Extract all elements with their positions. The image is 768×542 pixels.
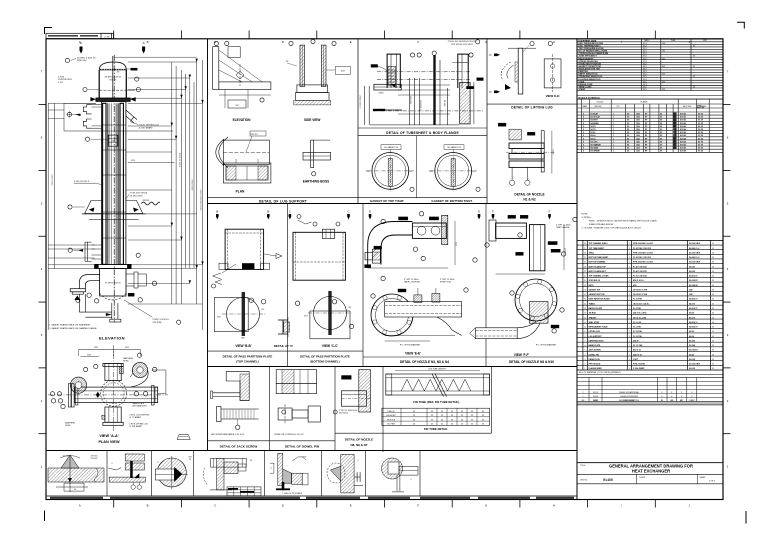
top strip pseudo text [48, 35, 78, 37]
bottom channel balloons top [313, 222, 317, 226]
svg-text:1: 1 [613, 141, 614, 143]
row3 caption bars [208, 440, 336, 442]
svg-text:XXX XXX: XXX XXX [91, 456, 99, 458]
svg-text:ELEVATION: ELEVATION [99, 336, 125, 341]
lifting lug plate [518, 48, 523, 94]
svg-text:D: D [489, 53, 491, 57]
svg-text:1: 1 [613, 126, 614, 128]
view F-F vertical pipe hatched [530, 302, 549, 324]
nozzle schedule dark column bar [673, 113, 677, 150]
bottom channel top notch [322, 229, 334, 238]
svg-text:N1 INLET: N1 INLET [591, 113, 599, 115]
svg-text:SA 36: SA 36 [689, 335, 694, 338]
jack screw stud [221, 408, 259, 410]
svg-text:XX/XX: XX/XX [593, 396, 599, 398]
nozzle N8 caption [335, 432, 383, 434]
tubesheet right U channel [458, 54, 468, 88]
svg-text:XX: XX [712, 294, 714, 296]
nozzle right dim vertical [551, 131, 553, 174]
svg-text:N1 & N2: N1 & N2 [523, 197, 535, 201]
svg-text:SA 105: SA 105 [689, 358, 695, 361]
svg-text:1: 1 [613, 120, 614, 122]
plan up arm top cap [103, 363, 123, 366]
svg-text:EARTHING BOSS: EARTHING BOSS [589, 339, 605, 342]
bottom shell flange band [95, 264, 132, 268]
svg-text:NECK THK: NECK THK [683, 106, 692, 108]
svg-text:XX XX: XX XX [698, 138, 704, 140]
svg-text:RF: RF [645, 138, 647, 140]
svg-text:1: 1 [613, 135, 614, 137]
svg-text:PL 10 THK: PL 10 THK [633, 336, 643, 338]
svg-text:PAINTING: PAINTING [579, 70, 589, 73]
svg-text:5 NOS. LUG SUPPORT: 5 NOS. LUG SUPPORT [129, 415, 150, 417]
divider left region / middle details [207, 39, 209, 451]
svg-text:2 NOS. XXL NOZZLE FOR XXX: 2 NOS. XXL NOZZLE FOR XXX [448, 41, 477, 43]
svg-text:A: A [80, 41, 82, 45]
svg-text:XXX XX: XXX XX [250, 134, 258, 136]
top channel feet [219, 263, 228, 269]
view D-D plate [544, 59, 561, 88]
scale flag symbol [177, 435, 190, 440]
plan arm right flange bars [152, 386, 155, 406]
plan top dim line [79, 349, 141, 351]
svg-text:1: 1 [629, 271, 630, 273]
svg-text:PL 40 X OD XXX: PL 40 X OD XXX [633, 270, 648, 273]
caption bar pass partition plates [208, 350, 364, 352]
svg-text:1: 1 [629, 359, 630, 361]
svg-text:2. OUTLINE : FLANGES 1 BOLT: 2. OUTLINE : FLANGES 1 BOLT OF ONE NOZZL… [582, 227, 642, 230]
tube bundle dark side bars [103, 103, 106, 264]
svg-text:PL 10 THK: PL 10 THK [633, 299, 643, 301]
svg-text:XXXX XXXXXXX XXXX: XXXX XXXXXXX XXXX [201, 189, 203, 211]
svg-text:EQUIPMENT DATA: EQUIPMENT DATA [579, 39, 597, 42]
svg-text:SA 516 70: SA 516 70 [689, 275, 697, 278]
svg-text:14: 14 [584, 308, 586, 310]
svg-text:150#: 150# [636, 120, 640, 122]
svg-text:SHELL: SHELL [589, 252, 596, 254]
svg-text:XX: XX [712, 299, 714, 301]
svg-text:XX XXX XXXX: XX XXX XXXX [130, 195, 144, 197]
svg-text:24: 24 [584, 262, 586, 264]
svg-text:TUBE OD: TUBE OD [387, 411, 395, 413]
svg-text:1: 1 [629, 276, 630, 278]
earthing boss bracket [311, 140, 314, 168]
svg-text:(BOTTOM CHANNEL): (BOTTOM CHANNEL) [310, 360, 339, 364]
svg-text:DIA 10 X L=XXX: DIA 10 X L=XXX [633, 312, 647, 315]
svg-text:DETAIL OF LUG SUPPORT: DETAIL OF LUG SUPPORT [259, 199, 308, 203]
svg-text:D: D [282, 504, 284, 508]
svg-text:RF: RF [645, 123, 647, 125]
svg-text:SA 106 GR.B: SA 106 GR.B [689, 261, 701, 264]
svg-text:C: C [289, 210, 291, 214]
nozzle centerline [506, 151, 555, 153]
svg-text:REF=TH: REF=TH [697, 108, 705, 110]
bottom nozzle [111, 303, 113, 319]
row3 box dividers [269, 367, 271, 451]
svg-text:150#: 150# [636, 129, 640, 131]
svg-text:2" NPT CL 3000: 2" NPT CL 3000 [440, 279, 455, 281]
svg-text:SHEET :: SHEET : [700, 477, 707, 479]
svg-text:ISSUED FOR REVIEW: ISSUED FOR REVIEW [620, 396, 638, 398]
title block [577, 463, 723, 500]
svg-text:150#: 150# [636, 113, 640, 115]
svg-text:JACK SCREW REMOVABLE @ XX & XX: JACK SCREW REMOVABLE @ XX & XX [211, 433, 245, 436]
view F-F black tag [551, 325, 559, 328]
divider middle details / right column [576, 39, 578, 500]
N1 black tag [498, 123, 506, 126]
lug support gusset lines [219, 50, 262, 82]
svg-text:NOZZLE: NOZZLE [597, 102, 605, 104]
svg-text:1: 1 [613, 144, 614, 146]
top channel partition bar [242, 263, 254, 269]
svg-text:XX XX: XX XX [698, 113, 704, 115]
svg-text:XX XX: XX XX [698, 132, 704, 134]
lifting lug dashed arc [501, 62, 511, 80]
lug base lines [82, 213, 146, 215]
svg-text:XX XX: XX XX [698, 123, 704, 125]
svg-text:150#: 150# [636, 123, 640, 125]
svg-text:XXXX XXXX: XXXX XXXX [192, 179, 194, 191]
svg-text:TEMA CLASS: TEMA CLASS [579, 85, 593, 88]
svg-text:OD GASKET XX: OD GASKET XX [384, 146, 399, 149]
view E-E top nozzle stubs [414, 295, 422, 303]
svg-text:XXXX XX XXXX: XXXX XX XXXX [180, 152, 182, 167]
left dim verticals [47, 103, 49, 330]
tubesheet left flange bars [374, 84, 401, 90]
svg-text:SA 193 B7: SA 193 B7 [689, 279, 698, 282]
svg-text:1: 1 [629, 266, 630, 268]
plan vertical arm down [105, 407, 121, 422]
svg-text:XX XX: XX XX [698, 126, 704, 128]
tubesheet box borders [357, 39, 359, 204]
svg-text:NO. FINS: NO. FINS [387, 423, 395, 425]
svg-text:2 NOS. LIFTING LUG: 2 NOS. LIFTING LUG [129, 424, 148, 426]
svg-text:VIEW 'B-B': VIEW 'B-B' [235, 344, 251, 348]
view E-E dim lines [385, 335, 455, 337]
lug support elevation vertical plate [213, 47, 219, 90]
svg-text:RF: RF [645, 135, 647, 137]
side view balloons [289, 41, 293, 45]
svg-text:1: 1 [629, 285, 630, 287]
svg-text:M2 HAND: M2 HAND [591, 147, 599, 150]
svg-text:INSULATION THK. MM: INSULATION THK. MM [579, 68, 601, 71]
svg-text:H: H [553, 40, 555, 44]
svg-text:N6 TG: N6 TG [591, 129, 597, 131]
svg-text:X XXXX XXXX: X XXXX XXXX [360, 95, 362, 109]
balloon top-left [65, 58, 69, 62]
svg-text:XXX PIPE: XXX PIPE [152, 322, 162, 324]
svg-text:SA 105: SA 105 [689, 265, 695, 268]
plan left hatched flange circle [70, 377, 86, 393]
svg-text:DETAIL OF DOWEL PIN: DETAIL OF DOWEL PIN [285, 444, 320, 448]
nozzle schedule table [577, 99, 723, 152]
svg-text:XXX: XXX [341, 71, 346, 73]
svg-text:NAME PLATE: NAME PLATE [589, 344, 601, 347]
svg-text:XX: XX [712, 340, 714, 342]
nozzle N3 flange barrel [412, 223, 446, 238]
svg-text:ELEVATION: ELEVATION [233, 118, 251, 122]
left manway upper flange [83, 105, 91, 114]
svg-text:DETAIL OF PASS PARTITION PLATE: DETAIL OF PASS PARTITION PLATE [300, 355, 350, 359]
svg-text:1: 1 [613, 117, 614, 119]
svg-text:PIPE 2 SCH80: PIPE 2 SCH80 [633, 364, 645, 366]
nozzle N6 horizontal flange assembly [496, 223, 527, 238]
bottom run to center [79, 311, 112, 313]
svg-text:XX XX: XX XX [698, 120, 704, 122]
svg-text:XXX XX: XXX XX [109, 80, 117, 82]
plan arm left flange bars [68, 384, 71, 407]
svg-text:DRAIN PLUG: DRAIN PLUG [589, 358, 601, 361]
nozzle N8 vertical hatched bar [359, 370, 371, 412]
footer strip [46, 495, 577, 497]
svg-text:1: 1 [629, 313, 630, 315]
svg-text:NOTE :: NOTE : [582, 214, 589, 216]
svg-text:BOSS: BOSS [65, 425, 71, 427]
svg-text:1: 1 [613, 113, 614, 115]
svg-text:SPACER: SPACER [589, 316, 597, 319]
svg-text:XX: XX [712, 331, 714, 333]
svg-text:SA 516 70: SA 516 70 [689, 326, 697, 329]
view E-E flange circle [371, 294, 413, 336]
svg-text:SCH 40: SCH 40 [680, 128, 686, 131]
svg-text:IMPINGEMENT PLATE: IMPINGEMENT PLATE [589, 326, 609, 329]
balloon spider [85, 137, 89, 141]
svg-text:1: 1 [629, 354, 630, 356]
weld box 4 flange corner [211, 458, 247, 467]
svg-text:XX: XX [712, 364, 714, 366]
svg-text:1: 1 [629, 243, 630, 245]
svg-text:RF: RF [645, 120, 647, 122]
svg-text:XX: XX [712, 257, 714, 259]
svg-text:150#: 150# [636, 135, 640, 137]
svg-text:DETAIL OF NOZZLE: DETAIL OF NOZZLE [514, 192, 544, 196]
svg-text:X XXX XX XXX X: X XXX XX XXX X [74, 181, 90, 183]
svg-text:270°: 270° [429, 171, 433, 173]
svg-text:SA 36: SA 36 [689, 312, 694, 315]
balloon head right [135, 77, 139, 81]
svg-text:XXX XXX: XXX XXX [91, 458, 99, 460]
notes box [577, 152, 723, 240]
svg-text:SA 266 CL.2: SA 266 CL.2 [689, 247, 699, 250]
svg-text:XXX XX: XXX XX [445, 99, 447, 106]
svg-text:BOTTOM TUBE SHEET: BOTTOM TUBE SHEET [589, 257, 610, 259]
svg-text:PL 6 THK: PL 6 THK [633, 327, 642, 329]
plan balloons top [84, 367, 88, 371]
svg-text:1: 1 [629, 303, 630, 305]
plan centrelines [48, 394, 168, 396]
svg-text:DETAIL OF NOZZLE N3, N5 & N4: DETAIL OF NOZZLE N3, N5 & N4 [400, 360, 449, 364]
svg-text:SA 106 GR.B: SA 106 GR.B [689, 242, 701, 245]
lug support small box [228, 47, 240, 58]
black tag on head [131, 68, 137, 70]
svg-text:XX: XX [712, 359, 714, 361]
balloon far right note [177, 320, 181, 324]
svg-text:X XXXX XX: X XXXX XX [421, 100, 423, 110]
svg-text:1. GASKET SEATING FACE ON TUB: 1. GASKET SEATING FACE ON TUBESHEET [49, 324, 91, 327]
top head shell [99, 70, 126, 98]
svg-text:X XX: X XX [105, 37, 111, 39]
svg-text:SIDE VIEW: SIDE VIEW [304, 118, 320, 122]
svg-text:1: 1 [629, 336, 630, 338]
tubesheet left tag and leader [371, 65, 378, 68]
plan balloons left cluster [50, 392, 54, 396]
weld box 3 circular seam [157, 458, 186, 487]
svg-text:VIEW 'E-E': VIEW 'E-E' [405, 352, 421, 356]
svg-text:270°: 270° [366, 171, 370, 173]
tube bundle inner lines [106, 103, 108, 264]
svg-text:SA 516 70: SA 516 70 [689, 307, 697, 310]
svg-text:XX XX: XX XX [698, 144, 704, 146]
svg-text:@ 180° APART: @ 180° APART [139, 126, 154, 129]
svg-text:SA 106 GR.B: SA 106 GR.B [689, 251, 701, 254]
svg-text:XXX XXXX: XXX XXXX [339, 413, 349, 415]
svg-text:1: 1 [629, 331, 630, 333]
plan curved shell arcs [219, 137, 228, 168]
svg-text:12: 12 [584, 317, 586, 319]
svg-text:VIEW 'A-A': VIEW 'A-A' [99, 434, 118, 438]
top channel leader right [264, 254, 276, 256]
svg-text:XX: XX [712, 336, 714, 338]
lug support bracket right [126, 201, 143, 214]
svg-text:TOP CHANNEL COVER: TOP CHANNEL COVER [589, 275, 609, 278]
svg-text:XXXXXXXXXX: XXXXXXXXXX [58, 79, 72, 81]
svg-text:SCH 40: SCH 40 [680, 112, 686, 115]
svg-text:M16: M16 [633, 285, 637, 287]
svg-text:SERVICE: SERVICE [595, 106, 602, 108]
svg-text:FIN HEIGHT: FIN HEIGHT [386, 415, 396, 417]
view F-F s-curve pipe going left [476, 328, 518, 339]
svg-text:RF: RF [645, 117, 647, 119]
svg-text:BOTTOM CHANNEL: BOTTOM CHANNEL [589, 261, 607, 264]
weld box 7 pipe weld [382, 458, 403, 479]
svg-text:1 OF 1: 1 OF 1 [709, 481, 716, 483]
svg-text:DES. TEMPERATURE C: DES. TEMPERATURE C [579, 44, 602, 47]
jack screw bolt into bracket [213, 392, 240, 394]
balloons right nozzle [136, 253, 140, 257]
svg-text:150#: 150# [636, 138, 640, 140]
svg-text:N8, N9 & N7: N8, N9 & N7 [350, 443, 367, 447]
svg-text:XXX: XXX [565, 247, 567, 252]
nozzle N6 dim lines [496, 273, 545, 275]
svg-text:D: D [282, 40, 284, 44]
left extension lines manway [48, 109, 64, 111]
svg-text:XX: XX [712, 262, 714, 264]
view E-E balloons [381, 276, 385, 280]
svg-text:RADIOGRAPHY: RADIOGRAPHY [579, 57, 595, 60]
svg-text:GASKET TOP: GASKET TOP [589, 288, 601, 291]
lifting lug hatch块 [515, 62, 518, 82]
svg-text:(TOP CHANNEL): (TOP CHANNEL) [236, 360, 259, 364]
svg-text:M12 X 50: M12 X 50 [633, 350, 641, 352]
grid row ticks and numbers [39, 104, 47, 106]
svg-text:XXX: XXX [131, 160, 136, 162]
svg-text:XX XX: XX XX [698, 117, 704, 119]
svg-text:XX: XX [712, 276, 714, 278]
svg-text:DRG NO. :: DRG NO. : [580, 480, 589, 482]
balloon lug left [68, 205, 72, 209]
vessel top dome [99, 62, 126, 70]
leader to bottom-right text [124, 300, 152, 317]
gasket left circle [372, 153, 409, 190]
lug support elevation horizontal plate [219, 82, 271, 90]
svg-text:SS 304: SS 304 [689, 344, 695, 347]
tubesheet dashdot centerlines [377, 71, 470, 73]
svg-text:PL 25 THK X OD XXX: PL 25 THK X OD XXX [633, 257, 652, 259]
svg-text:WITH PLUG: WITH PLUG [440, 282, 452, 284]
tubesheet dark diamond bar [373, 109, 385, 111]
divider row1/row2 of middle details [208, 203, 578, 205]
svg-text:60°–90°: 60°–90° [63, 456, 69, 458]
balloons left elbow [76, 298, 80, 302]
nozzle N6 vertical pipe [530, 225, 545, 271]
svg-text:SEAL STRIP: SEAL STRIP [589, 321, 600, 324]
svg-text:XX: XX [712, 317, 714, 319]
svg-text:A: A [79, 504, 81, 508]
svg-text:FLANGE: FLANGE [641, 101, 649, 104]
svg-text:DETAIL OF NOZZLE N6 & N10: DETAIL OF NOZZLE N6 & N10 [509, 360, 554, 364]
svg-text:SA 36: SA 36 [689, 330, 694, 333]
svg-text:PIPE 4 SCH40 X L=XXX: PIPE 4 SCH40 X L=XXX [633, 242, 654, 245]
squiggle annotation [141, 202, 160, 205]
svg-text:H: H [553, 504, 555, 508]
svg-text:23: 23 [584, 266, 586, 268]
svg-text:26: 26 [584, 252, 586, 254]
svg-text:DETAIL OF LIFTING LUG: DETAIL OF LIFTING LUG [511, 106, 553, 110]
svg-text:1: 1 [629, 252, 630, 254]
svg-text:1 8 X X X: 1 8 X X X [674, 127, 676, 136]
BOM caption row [577, 369, 723, 371]
plan right dim loop [152, 370, 166, 394]
side view columns [300, 45, 305, 86]
svg-text:25: 25 [584, 257, 586, 259]
svg-text:FIN TUBE (REF. FIN TUBE DETAIL: FIN TUBE (REF. FIN TUBE DETAIL) [413, 400, 459, 404]
nozzle N8 black tag [342, 376, 352, 380]
svg-text:2. GASKET SEATING FACE ON CHA: 2. GASKET SEATING FACE ON CHANNEL FLANGE [49, 327, 97, 330]
svg-text:1: 1 [629, 317, 630, 319]
svg-text:1: 1 [629, 327, 630, 329]
svg-text:BODY FLANGE TOP: BODY FLANGE TOP [589, 265, 607, 268]
svg-text:DIA 25: DIA 25 [633, 339, 639, 342]
svg-text:1: 1 [629, 345, 630, 347]
svg-text:BODY FLANGE BOT: BODY FLANGE BOT [589, 270, 607, 273]
svg-text:GENERAL ARRANGEMENT DRAWING FO: GENERAL ARRANGEMENT DRAWING FOR [609, 463, 693, 468]
svg-text:PIPE XXX: PIPE XXX [77, 60, 87, 62]
top channel outer rect [225, 229, 264, 269]
detail at C drawing [278, 320, 288, 334]
plan lower hatched part [223, 163, 271, 183]
svg-text:SA 36: SA 36 [689, 353, 694, 356]
svg-text:XX NPS X SCH XX: XX NPS X SCH XX [105, 76, 122, 78]
tubesheet mid horizontals [398, 84, 450, 86]
svg-text:XX: XX [712, 327, 714, 329]
fin tube top dim [395, 370, 480, 372]
svg-text:22: 22 [584, 271, 586, 273]
tubesheet left U channel [387, 54, 400, 88]
svg-text:A: A [143, 41, 145, 45]
svg-text:1: 1 [629, 299, 630, 301]
svg-text:GASKET OF BOTTOM T/SHT.: GASKET OF BOTTOM T/SHT. [431, 199, 472, 203]
caption bar nozzle details row2 [363, 356, 486, 358]
svg-text:SCH 40: SCH 40 [680, 147, 686, 150]
bottom dished head dashed [100, 293, 126, 300]
trim mark bottom-left [44, 511, 46, 522]
svg-text:XXX XXXXX XXX XXXX: XXX XXXXX XXX XXXX [451, 44, 473, 46]
svg-text:1: 1 [613, 129, 614, 131]
svg-text:N4 DRAIN: N4 DRAIN [591, 122, 600, 125]
svg-text:XX XX: XX XX [698, 141, 704, 143]
svg-text:SA 179: SA 179 [689, 316, 695, 319]
left manway lower flange [83, 119, 91, 128]
